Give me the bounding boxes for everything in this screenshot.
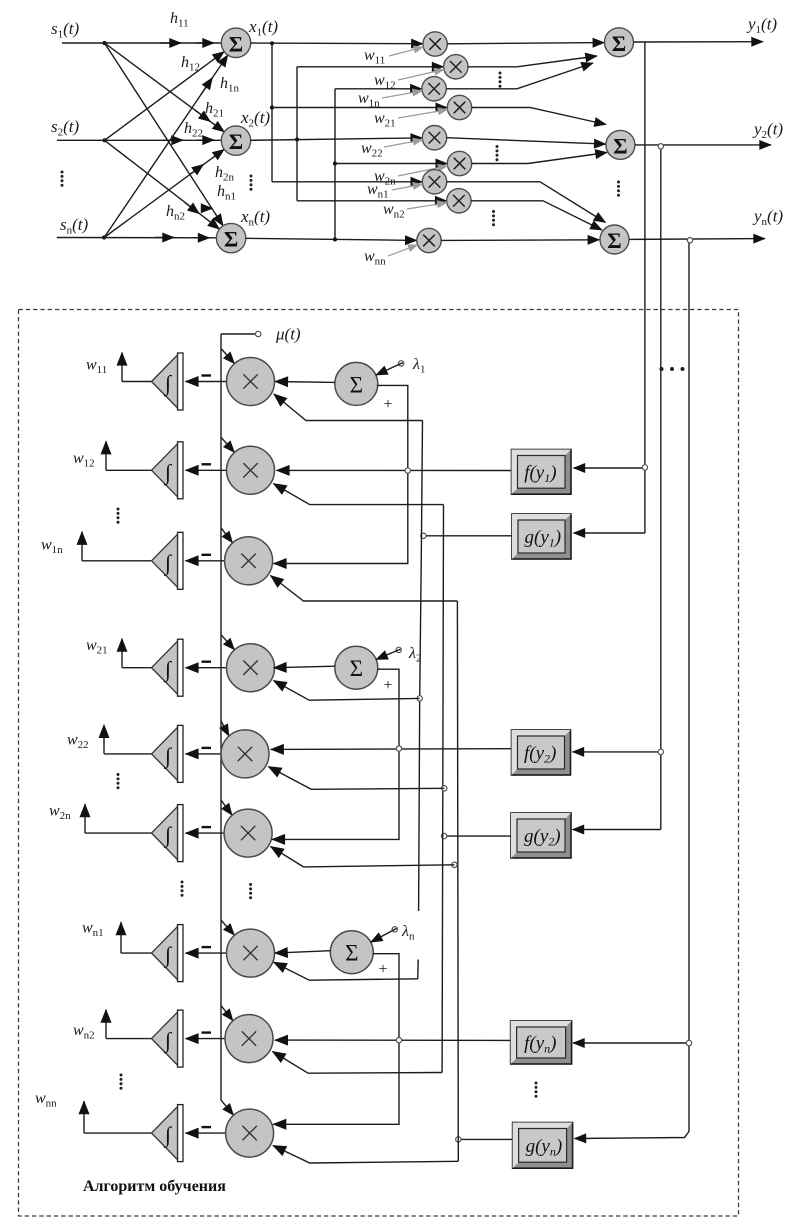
wire g(yn) to multiplier w1n <box>271 576 458 602</box>
ellipsis between f(yn) and g(yn) <box>535 1082 538 1098</box>
wire mu vertical <box>220 334 222 1101</box>
wire g(y1) to multiplier wn1 <box>274 962 418 980</box>
multiplier w11 <box>423 32 447 56</box>
label minus wn2 <box>202 1031 212 1033</box>
wire x1 to multiplier wn1 <box>272 181 422 183</box>
integrator w2n <box>152 805 184 862</box>
ellipsis right of w12 <box>499 72 502 88</box>
arrow mu into multiplier row3 <box>221 528 233 543</box>
wire y1 tap to f(y1) <box>574 467 645 469</box>
arrowhead s2 into sum x2 <box>196 139 214 141</box>
multiplier w12 <box>444 55 468 79</box>
wire sn line <box>57 237 217 239</box>
junction g(y2) tap w22 <box>442 786 447 791</box>
junction y2 line circle <box>658 144 663 149</box>
integrator wn1 <box>152 925 184 982</box>
svg-text:y2(t): y2(t) <box>752 120 783 142</box>
wire g(y1) vertical <box>418 421 423 979</box>
wire lambdan side branch <box>273 954 399 1125</box>
wire integrator w11 output <box>122 381 152 383</box>
multiplier wn1 <box>422 170 446 194</box>
wire integrator w1n output <box>82 560 152 562</box>
ellipsis between wn2 and wnn labels <box>120 1074 123 1090</box>
label minus w12 <box>202 463 212 465</box>
arrow weight w1n output up <box>81 532 83 561</box>
wire multiplier w21 to integrator <box>186 667 227 669</box>
summer sum-x2 <box>221 126 250 155</box>
summer sum-xn <box>216 223 245 252</box>
wire x2 to multiplier w22 <box>251 138 423 140</box>
wire xn vertical branch <box>334 89 336 240</box>
multiplier learning wn2 <box>225 1015 273 1063</box>
wire f(yn) output to multiplier wn2 <box>275 1039 511 1041</box>
wire multiplier w11 to integrator <box>186 381 227 383</box>
gray arrow wn2 to multiplier <box>407 203 447 209</box>
wire x1 vertical branch <box>271 43 273 182</box>
arrow lambda2 into summer <box>376 649 400 659</box>
block f(y1) <box>512 450 572 495</box>
arrowhead on s2 wire <box>162 139 183 141</box>
wire g(y1) to multiplier w21 <box>274 681 420 701</box>
block f(y2) <box>512 730 571 775</box>
junction g(y1) circle <box>421 533 426 538</box>
arrowhead extra on h1n wire <box>201 78 212 95</box>
svg-text:f(yn): f(yn) <box>524 1033 556 1056</box>
gray arrow wnn to multiplier <box>388 245 418 256</box>
wire integrator w22 output <box>104 753 152 755</box>
wire y2 feedback vertical <box>660 145 662 830</box>
arrow weight wnn output up <box>83 1101 85 1133</box>
wire multiplier w1n to integrator <box>186 560 225 562</box>
wire x2 to multiplier w12 <box>297 66 444 68</box>
wire yn into g(yn) <box>575 1132 690 1139</box>
block g(y1) <box>512 514 571 559</box>
svg-text:Σ: Σ <box>350 372 363 397</box>
svg-text:Σ: Σ <box>350 656 363 681</box>
wire w11 to sum y1 <box>447 43 604 44</box>
wire wn2 to sum yn <box>471 201 602 230</box>
wire summer lambdan to multiplier <box>275 951 331 953</box>
integrator w22 <box>152 725 184 782</box>
summer lambda1 <box>335 362 378 405</box>
svg-text:s1(t): s1(t) <box>51 19 80 41</box>
ellipsis right of w22 <box>496 145 499 161</box>
svg-text:+: + <box>378 961 387 978</box>
junction s1 branch <box>102 41 106 45</box>
svg-text:xn(t): xn(t) <box>240 207 270 229</box>
arrowhead extra on h2n wire <box>191 164 204 174</box>
arrow mu into multiplier row7 <box>221 920 235 935</box>
svg-text:g(y1): g(y1) <box>525 527 562 550</box>
arrowhead extra on h21 wire <box>195 110 210 121</box>
junction y2 tap circle <box>658 749 663 754</box>
block g(y2) <box>511 813 571 858</box>
arrow weight wn1 output up <box>120 922 122 953</box>
label minus wn1 <box>202 946 212 948</box>
wire integrator wn2 output <box>106 1038 152 1040</box>
summer sum-x1 <box>221 28 250 57</box>
junction f(y2) on lambda2 vertical <box>396 746 401 751</box>
summer sum-y2 <box>606 130 635 159</box>
ellipsis between s2 and sn <box>61 171 64 187</box>
wire h1n sn to sum x1 <box>104 55 228 238</box>
arrowhead sn into sum xn <box>192 237 210 239</box>
arrow lambda1 into summer <box>376 363 403 375</box>
multiplier learning wnn <box>226 1109 274 1157</box>
wire g(y2) output <box>444 835 511 837</box>
ellipsis between group2 and group3 left <box>181 881 184 897</box>
multiplier w1n <box>422 77 446 101</box>
label minus w1n <box>202 554 212 556</box>
wire s1 line <box>62 42 221 44</box>
junction xn tap <box>333 237 337 241</box>
svg-text:x2(t): x2(t) <box>240 108 270 130</box>
junction x1 to w21 <box>270 105 274 109</box>
arrowhead on sn wire <box>155 236 174 238</box>
wire g(y1) output <box>423 535 512 537</box>
wire h12 s2 to sum x1 <box>105 52 225 141</box>
wire f(y1) output to multiplier w12 <box>277 469 512 471</box>
svg-text:f(y2): f(y2) <box>524 743 556 766</box>
multiplier learning w22 <box>221 730 269 778</box>
wire y1 feedback vertical <box>644 42 646 533</box>
terminal lambdan circle <box>392 927 397 932</box>
wire x1 to multiplier w21 <box>272 107 447 109</box>
wire multiplier wn2 to integrator <box>186 1038 226 1040</box>
ellipsis between sum-y2 and sum-yn <box>617 181 620 197</box>
svg-text:y1(t): y1(t) <box>746 15 777 37</box>
arrow weight wn2 output up <box>105 1010 107 1039</box>
wire summer lambda1 to multiplier <box>275 381 335 384</box>
wire yn feedback vertical <box>688 239 690 1132</box>
svg-text:Σ: Σ <box>613 133 627 158</box>
junction f(yn) on lambdan vertical <box>396 1038 401 1043</box>
svg-text:μ(t): μ(t) <box>275 325 301 344</box>
terminal lambda1 circle <box>399 361 404 366</box>
wire g(y1) to multiplier w11 <box>274 394 423 421</box>
multiplier learning w1n <box>225 537 273 585</box>
integrator w11 <box>152 353 184 410</box>
ellipsis more outputs <box>660 367 685 371</box>
wire yn tap to f(yn) <box>573 1042 689 1044</box>
ellipsis between sum-x2 and sum-xn <box>250 175 253 191</box>
wire xn to multiplier w2n <box>335 163 447 165</box>
svg-text:Σ: Σ <box>607 228 621 253</box>
integrator w1n <box>152 532 184 589</box>
arrow lambdan into summer <box>371 928 397 942</box>
summer lambda2 <box>335 646 378 689</box>
arrowhead extra on hn2 wire <box>185 203 199 214</box>
integrator wn2 <box>152 1010 184 1067</box>
wire wnn to sum yn <box>441 239 599 242</box>
arrow weight w12 output up <box>105 441 107 470</box>
wire lambda1 side branch <box>274 385 408 563</box>
terminal lambda2 circle <box>396 647 401 652</box>
wire w22 to sum y2 <box>447 138 606 144</box>
gray arrow w1n to multiplier <box>382 91 422 98</box>
junction sn branch <box>102 235 106 239</box>
wire h2n sn to sum x2 <box>104 149 224 237</box>
wire w21 to sum y2 <box>472 108 606 125</box>
svg-text:f(y1): f(y1) <box>524 462 556 485</box>
wire hn2 s2 to sum xn <box>105 140 220 229</box>
arrow mu into multiplier row6 <box>221 800 232 815</box>
wire g(yn) to multiplier w2n <box>271 847 455 867</box>
junction g(yn) circle <box>456 1137 461 1142</box>
multiplier wn2 <box>447 189 471 213</box>
wire x1 to multiplier w11 <box>251 42 423 45</box>
wire summer lambda2 to multiplier <box>274 666 335 668</box>
multiplier w21 <box>447 95 471 119</box>
wire g(y2) to multiplier w12 <box>273 484 443 505</box>
wire integrator wn1 output <box>121 952 152 954</box>
arrow weight w11 output up <box>121 353 123 382</box>
arrowhead s1 into sum x1 <box>196 42 214 44</box>
junction yn tap circle <box>686 1040 691 1045</box>
svg-text:+: + <box>383 396 392 413</box>
junction x1 tap <box>270 41 274 45</box>
multiplier learning wn1 <box>227 929 275 977</box>
arrowhead h11 on s1 wire <box>160 42 181 44</box>
wire s2 line <box>57 139 221 141</box>
junction yn line circle <box>687 238 692 243</box>
svg-text:Σ: Σ <box>612 31 626 56</box>
svg-text:g(yn): g(yn) <box>526 1136 563 1159</box>
arrow mu into multiplier row4 <box>221 635 235 650</box>
arrow mu into multiplier row1 <box>221 349 235 364</box>
svg-text:Σ: Σ <box>229 129 243 154</box>
integrator wnn <box>152 1105 184 1162</box>
wire lambda2 side branch <box>272 669 399 839</box>
wire y2 output <box>635 144 771 146</box>
multiplier wnn <box>417 228 441 252</box>
gray arrow w12 to multiplier <box>398 70 444 81</box>
svg-text:s2(t): s2(t) <box>51 117 80 139</box>
multiplier w2n <box>447 151 471 175</box>
junction xn to w2n <box>333 161 337 165</box>
gray arrow w21 to multiplier <box>398 110 448 118</box>
wire integrator wnn output <box>84 1132 152 1134</box>
multiplier learning w21 <box>227 644 275 692</box>
wire g(yn) output <box>458 1138 512 1140</box>
integrator w21 <box>152 639 184 696</box>
junction g(yn) tap w2n <box>452 862 457 867</box>
arrow weight w22 output up <box>103 725 105 754</box>
junction g(y2) circle <box>442 833 447 838</box>
ellipsis between group2 and group3 mid <box>249 883 252 899</box>
multiplier w22 <box>422 126 446 150</box>
gray arrow wn1 to multiplier <box>392 184 423 190</box>
integrator w12 <box>152 442 184 499</box>
label minus w22 <box>202 747 212 749</box>
svg-text:x1(t): x1(t) <box>248 17 278 39</box>
summer sum-yn <box>600 225 629 254</box>
multiplier learning w2n <box>224 809 272 857</box>
wire multiplier wn1 to integrator <box>186 952 227 954</box>
gray arrow w22 to multiplier <box>384 140 423 147</box>
wire g(yn) to multiplier wnn <box>273 1146 458 1164</box>
svg-text:Σ: Σ <box>345 941 358 966</box>
wire w1n to sum y1 <box>446 63 593 89</box>
wire g(y2) to multiplier w22 <box>268 767 444 790</box>
wire w2n to sum y2 <box>472 153 607 164</box>
label minus wnn <box>202 1126 212 1128</box>
wire yn output <box>629 238 765 241</box>
svg-text:Σ: Σ <box>224 227 238 252</box>
wire y1 into g(y1) <box>574 532 645 534</box>
wire multiplier w2n to integrator <box>186 832 225 834</box>
wire f(y2) output to multiplier w22 <box>271 748 512 751</box>
svg-text:g(y2): g(y2) <box>524 826 561 849</box>
summer lambdan <box>330 931 373 974</box>
wire y2 into g(y2) <box>573 829 661 831</box>
wire x2 to multiplier wn2 <box>297 200 447 202</box>
block f(yn) <box>511 1021 572 1064</box>
wire g(y2) to multiplier wn2 <box>273 1052 443 1074</box>
wire wn1 to sum yn <box>447 182 606 223</box>
ellipsis between w22 and w2n labels <box>117 773 120 789</box>
junction y1 tap circle <box>642 465 647 470</box>
multiplier learning w12 <box>227 446 275 494</box>
arrow weight w21 output up <box>121 639 123 668</box>
wire integrator w12 output <box>106 469 152 471</box>
dashed boundary learning algorithm <box>19 310 739 1217</box>
svg-text:Σ: Σ <box>229 31 243 56</box>
arrow mu into multiplier row9 <box>221 1100 234 1115</box>
wire hn1 s1 to sum xn <box>105 43 224 226</box>
wire integrator w21 output <box>122 667 152 669</box>
block g(yn) <box>513 1123 573 1169</box>
arrow mu into multiplier row5 <box>221 721 229 736</box>
arrow mu into multiplier row8 <box>221 1006 233 1021</box>
svg-text:sn(t): sn(t) <box>60 215 89 237</box>
gray arrow w11 to multiplier <box>389 47 423 56</box>
junction g(y1) tap w21 <box>417 696 422 701</box>
summer sum-y1 <box>605 28 634 57</box>
wire integrator w2n output <box>85 832 152 834</box>
arrow mu into multiplier row2 <box>221 437 235 452</box>
node mu(t) terminal <box>221 331 261 336</box>
gray arrow w2n to multiplier <box>398 166 448 176</box>
wire w12 to sum y1 <box>468 56 597 67</box>
wire x2 vertical branch <box>296 67 298 201</box>
label minus w11 <box>202 374 212 376</box>
ellipsis between w12 and w1n labels <box>117 508 120 524</box>
junction s2 branch <box>102 138 106 142</box>
wire h21 s1 to sum x2 <box>105 43 225 132</box>
wire multiplier wnn to integrator <box>186 1132 226 1134</box>
wire multiplier w22 to integrator <box>186 753 222 755</box>
wire multiplier w12 to integrator <box>186 469 227 471</box>
label minus w2n <box>202 826 212 828</box>
junction f(y1) on lambda1 vertical <box>405 468 410 473</box>
wire g(yn) vertical <box>456 601 459 1161</box>
wire xn to multiplier w1n <box>335 88 422 90</box>
arrow weight w2n output up <box>84 804 86 833</box>
junction x2 tap <box>295 137 299 141</box>
wire g(y2) vertical <box>442 505 443 1073</box>
ellipsis right of wn2 <box>492 210 495 226</box>
svg-text:+: + <box>383 677 392 694</box>
wire xn to multiplier wnn <box>246 238 417 240</box>
wire y1 output <box>634 41 764 43</box>
svg-text:yn(t): yn(t) <box>752 207 783 229</box>
arrowhead extra on hn1 wire <box>201 207 213 209</box>
label minus w21 <box>202 661 212 663</box>
wire y2 tap to f(y2) <box>573 751 661 753</box>
svg-text:Алгоритм обучения: Алгоритм обучения <box>83 1178 226 1195</box>
multiplier learning w11 <box>227 358 275 406</box>
